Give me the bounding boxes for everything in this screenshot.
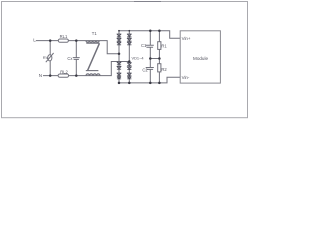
varistor RV bbox=[48, 55, 52, 61]
svg-text:T1: T1 bbox=[92, 31, 98, 36]
junction dot R2 bottom bbox=[158, 82, 161, 85]
diode VD right D7 bbox=[127, 77, 131, 79]
junction dot L-Cx bbox=[75, 39, 78, 42]
diode VD left D2 bbox=[117, 38, 121, 41]
junction dot AC1 left column bbox=[118, 53, 121, 56]
junction dot R1-R2 mid bbox=[158, 57, 161, 60]
wire bridge right column bbox=[128, 31, 130, 83]
diode VD right D1 bbox=[127, 34, 131, 37]
wire N line bottom bbox=[43, 62, 129, 76]
svg-text:RL2: RL2 bbox=[60, 70, 68, 75]
diode VD left D6 bbox=[117, 73, 121, 76]
diode VD left D7 bbox=[117, 77, 121, 79]
resistor R2 bbox=[158, 59, 160, 83]
wire bridge bottom rail bbox=[119, 77, 180, 83]
junction dot C1 top bbox=[149, 30, 152, 33]
diode VD right D6 bbox=[127, 73, 131, 76]
resistor RL2 bbox=[58, 74, 69, 77]
wire T1 top winding line bbox=[86, 41, 99, 43]
junction dot C2 bottom bbox=[149, 82, 152, 85]
diode VD left D4 bbox=[117, 62, 121, 65]
svg-text:R1: R1 bbox=[161, 43, 167, 48]
junction dot left column bottom bbox=[118, 82, 121, 85]
svg-text:C2: C2 bbox=[142, 67, 148, 72]
svg-text:Module: Module bbox=[193, 56, 209, 61]
wire bridge top rail bbox=[119, 31, 180, 39]
svg-text:Vin+: Vin+ bbox=[182, 36, 191, 41]
diode VD left D1 bbox=[117, 34, 121, 37]
junction dot N-RV bbox=[49, 74, 52, 77]
svg-text:RV: RV bbox=[43, 55, 49, 60]
T1 top core line bbox=[86, 42, 99, 44]
svg-text:L: L bbox=[33, 37, 36, 42]
border frame bbox=[2, 2, 248, 118]
junction dot right column bottom bbox=[128, 82, 131, 85]
border top darker segment bbox=[134, 1, 161, 3]
T1 bottom core line bbox=[86, 70, 99, 72]
T1 diagonal bbox=[88, 43, 100, 70]
svg-text:Cx: Cx bbox=[67, 56, 73, 61]
module box U1 bbox=[180, 31, 220, 83]
wire T1 bottom winding bbox=[86, 74, 100, 76]
junction dot N-Cx bbox=[75, 74, 78, 77]
wire bridge left column bbox=[118, 31, 120, 83]
junction dot right column top bbox=[128, 30, 130, 32]
svg-text:VD1~4: VD1~4 bbox=[132, 55, 145, 60]
junction dot AC2 right column bbox=[128, 60, 131, 63]
resistor RL1 bbox=[58, 39, 68, 42]
capacitor C1 bbox=[146, 31, 154, 59]
diode VD right D3 bbox=[127, 42, 131, 45]
svg-text:C1: C1 bbox=[141, 43, 147, 48]
svg-text:N: N bbox=[39, 73, 42, 78]
diodes bridge bbox=[117, 34, 131, 79]
capacitor Cx bbox=[73, 41, 80, 76]
diode VD right D2 bbox=[127, 38, 131, 41]
resistor R1 bbox=[158, 31, 160, 59]
svg-text:RL1: RL1 bbox=[60, 34, 68, 39]
svg-text:Vin-: Vin- bbox=[182, 75, 190, 80]
svg-text:R2: R2 bbox=[161, 67, 167, 72]
junction dot L-RV bbox=[49, 39, 52, 42]
wire L line top bbox=[36, 41, 119, 54]
diode VD left D5 bbox=[117, 66, 121, 69]
diode VD left D3 bbox=[117, 42, 121, 45]
diode VD right D4 bbox=[127, 63, 131, 66]
junction dot C1-C2 mid bbox=[149, 57, 152, 60]
capacitor C2 bbox=[146, 59, 154, 83]
diode VD right D5 bbox=[127, 67, 131, 70]
wire mid rail bbox=[150, 58, 159, 60]
wire RV branch bbox=[49, 41, 51, 76]
junction dot left column top bbox=[118, 30, 120, 32]
junction dot R1 top bbox=[158, 30, 161, 33]
